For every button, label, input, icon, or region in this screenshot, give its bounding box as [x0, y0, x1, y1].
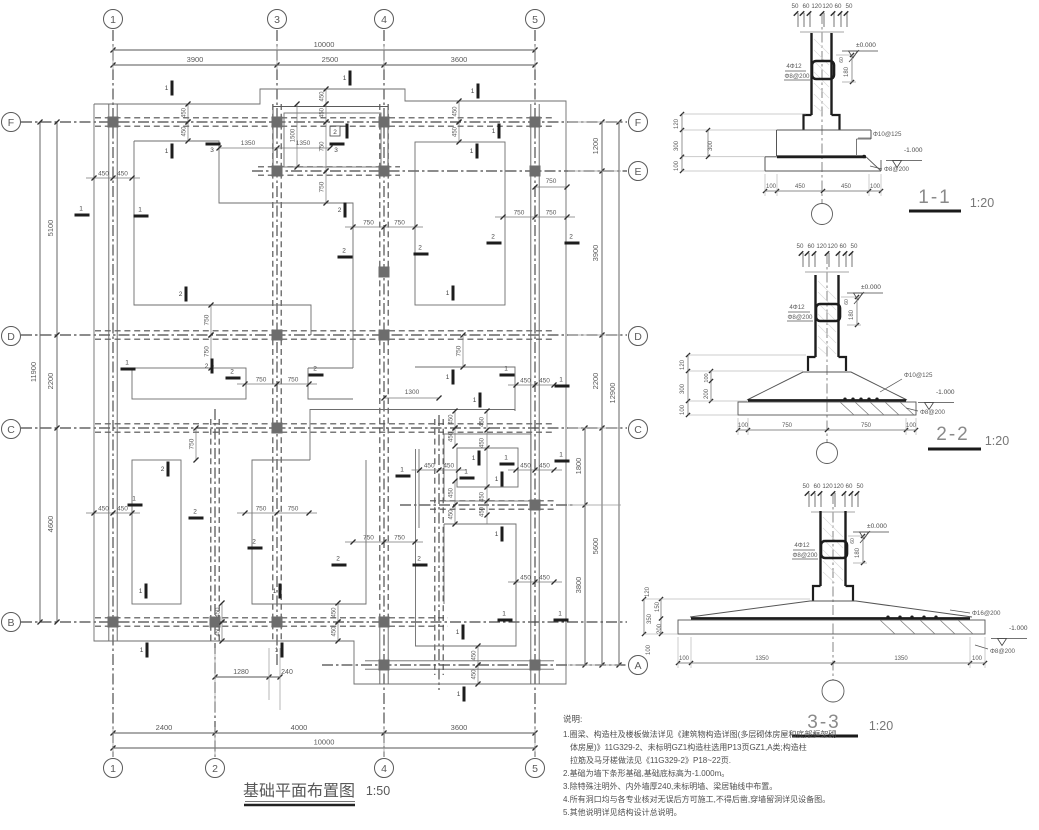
axis line mid-landing (horizontal, unlabeled): [400, 504, 575, 506]
section 1-1 mat slab: [765, 156, 777, 158]
svg-text:50: 50: [851, 243, 858, 250]
svg-text:2: 2: [336, 556, 340, 563]
footing outline room F-D/1-3 top edge: [134, 141, 353, 335]
svg-text:1.圈梁、构造柱及楼板做法详见《建筑物构造详图(多层砌体房屋: 1.圈梁、构造柱及楼板做法详见《建筑物构造详图(多层砌体房屋和底部框架砌: [563, 729, 836, 739]
axis bubble 3 top: [268, 10, 287, 29]
svg-text:1: 1: [502, 611, 506, 618]
wall on axis 5: [530, 104, 532, 684]
svg-text:1-1: 1-1: [918, 187, 951, 208]
svg-text:100: 100: [680, 404, 686, 415]
section 1-1 bottom rebar thick line: [777, 155, 866, 158]
section cut mark 1-1 at (403,476): [396, 475, 411, 478]
wall on axis 4: [379, 104, 381, 622]
section cut mark 1-1 at (480,400): [479, 393, 482, 408]
column F3: [272, 117, 283, 128]
svg-text:450: 450: [480, 506, 486, 517]
svg-text:120: 120: [645, 586, 651, 597]
svg-text:450: 450: [182, 126, 188, 137]
svg-text:4: 4: [381, 14, 387, 26]
dim 750 C to footing edge (x196): [195, 428, 197, 460]
svg-text:2: 2: [333, 129, 337, 136]
svg-text:3900: 3900: [591, 245, 600, 262]
axis bubble E right: [629, 162, 648, 181]
svg-text:200: 200: [657, 623, 663, 634]
svg-text:1: 1: [559, 377, 563, 384]
dim 450 F to porch footing: [325, 89, 327, 104]
svg-text:50: 50: [803, 483, 810, 490]
section 2-2 mat diagonal hatch: [840, 402, 854, 415]
footing outline stair room outer: [444, 434, 531, 501]
section 3-3 mat diagonal hatch: [880, 620, 895, 634]
svg-text:450: 450: [216, 607, 222, 618]
section cut mark 3-3 at (337,144): [330, 143, 345, 146]
dim extension lines bottom: [112, 727, 114, 757]
section cut mark 1-1 at (350,78): [349, 71, 352, 86]
section cut mark 1-1 at (507,375): [500, 374, 515, 377]
svg-text:100: 100: [870, 184, 881, 190]
svg-text:2: 2: [313, 366, 317, 373]
svg-text:Φ10@125: Φ10@125: [873, 131, 902, 138]
svg-text:1:20: 1:20: [970, 196, 994, 210]
svg-text:2: 2: [193, 509, 197, 516]
svg-text:450: 450: [520, 575, 531, 582]
svg-text:450: 450: [480, 491, 486, 502]
svg-text:11900: 11900: [29, 362, 38, 382]
svg-text:1: 1: [343, 75, 347, 82]
section cut mark 1-1 at (499,131): [498, 124, 501, 139]
svg-text:1: 1: [273, 588, 277, 595]
svg-text:4Φ12: 4Φ12: [794, 542, 810, 549]
section 3-3 bottom dim 100/1350/1350/100: [678, 662, 985, 664]
svg-text:450: 450: [216, 626, 222, 637]
footing outline room 4-5/F-D: [415, 142, 505, 305]
axis bubble 5 bottom: [526, 759, 545, 778]
svg-text:450: 450: [98, 506, 109, 513]
dim 750/750 across wall 5 at E-D: [495, 216, 575, 218]
column B1: [108, 617, 119, 628]
dim 450 stair room bottom: [454, 481, 456, 505]
axis line E (horizontal grid): [252, 170, 627, 172]
axis line 2 (vertical grid): [214, 409, 216, 757]
svg-text:2: 2: [205, 363, 209, 370]
dim 450/450 across stair wall: [412, 469, 467, 471]
footing outline room 4-5/D-C: [415, 367, 515, 411]
svg-text:C: C: [634, 424, 642, 436]
column E4: [379, 166, 390, 177]
footing outline room 5-6/mid-A: [416, 524, 517, 646]
wall on axis A: [365, 660, 554, 662]
svg-text:300: 300: [680, 383, 686, 394]
svg-text:1: 1: [464, 469, 468, 476]
wall on axis E (between axes 3 and 4): [258, 166, 400, 168]
section 3-3 centerline: [832, 494, 834, 680]
svg-text:±0.000: ±0.000: [867, 523, 887, 530]
svg-text:3900: 3900: [187, 55, 204, 64]
svg-text:5: 5: [532, 763, 538, 775]
section cut mark 2-2 at (494,243): [487, 242, 502, 245]
section 1-1 stirrup cage 4phi12: [812, 61, 834, 79]
svg-text:120: 120: [827, 243, 838, 250]
svg-text:5.其他说明详见结构设计总说明。: 5.其他说明详见结构设计总说明。: [563, 807, 682, 817]
axis bubble 5 top: [526, 10, 545, 29]
svg-text:100: 100: [766, 184, 777, 190]
svg-text:100: 100: [738, 423, 749, 429]
section cut mark 1-1 at (477,151): [476, 144, 479, 159]
section cut mark 1-1 at (463,632): [462, 625, 465, 640]
column D4: [379, 330, 390, 341]
svg-text:450: 450: [539, 378, 550, 385]
svg-text:1: 1: [125, 360, 129, 367]
section 3-3 shaft base step: [813, 586, 821, 601]
footing outline corridor 3-4/D-C: [308, 368, 353, 399]
column F1: [108, 117, 119, 128]
svg-text:1: 1: [110, 14, 116, 26]
wall on axis 2 (C to B): [210, 419, 212, 641]
section cut mark 1-1 at (561,620): [554, 619, 569, 622]
wall on axis 4 below B (solid): [379, 622, 381, 684]
svg-text:1300: 1300: [405, 389, 420, 396]
section 2-2 rebar section dots: [843, 398, 846, 401]
svg-text:说明:: 说明:: [563, 714, 582, 724]
svg-text:60: 60: [844, 299, 850, 305]
svg-text:1: 1: [140, 647, 144, 654]
dim chain right overall 12900: [618, 122, 620, 665]
svg-text:180: 180: [844, 66, 850, 77]
section 2-2 stirrup cage 4phi12: [816, 304, 840, 321]
svg-text:1280: 1280: [233, 669, 249, 676]
section 2-2 level mark -1.000: [918, 402, 954, 404]
section 3-3 column shaft: [819, 511, 821, 586]
svg-text:60: 60: [850, 538, 856, 544]
svg-text:±0.000: ±0.000: [861, 284, 881, 291]
footing outline room 1-2/C-B: [132, 460, 181, 604]
svg-text:100: 100: [646, 644, 652, 655]
svg-text:4Φ12: 4Φ12: [789, 304, 805, 311]
dim bottom 1280/240: [215, 676, 280, 678]
dim extension lines right side: [568, 121, 621, 123]
section cut mark 1-1 at (502,479): [501, 472, 504, 487]
svg-text:B: B: [7, 617, 14, 629]
section 2-2 column shaft: [814, 275, 816, 357]
dim 750 wall5 to outer edge: [535, 186, 567, 188]
svg-text:180: 180: [849, 309, 855, 320]
wall on axis D: [95, 330, 554, 332]
svg-text:5600: 5600: [591, 538, 600, 555]
section cut mark 2-2 at (255,548): [248, 547, 263, 550]
column F5: [530, 117, 541, 128]
section cut mark 2-2 at (345,210): [344, 203, 347, 218]
section 3-3 footing sloped top: [690, 601, 972, 617]
section cut mark 2-2 at (345,257): [338, 256, 353, 259]
section cut mark 1-1 at (146,591): [145, 584, 148, 599]
axis bubble D left: [2, 327, 21, 346]
dim 450/450 across wall 5 at stair: [508, 469, 562, 471]
dim 750/750 across wall 4 at E-D: [345, 226, 423, 228]
dim chain top segments 3900/2500/3600: [113, 64, 535, 66]
wall4 west footing edge below D: [352, 335, 354, 368]
section cut mark 1-1 at (464,694): [463, 687, 466, 702]
section 1-1 shaft base step: [804, 115, 812, 130]
dim 750 footing edge to D (x211 upper): [210, 305, 212, 335]
svg-text:450: 450: [520, 378, 531, 385]
dim 750 E to footing edge: [325, 171, 327, 203]
svg-text:1: 1: [470, 148, 474, 155]
section 1-1 left dim 300 second chain: [707, 130, 709, 157]
dim 450 stair room top: [454, 411, 456, 428]
svg-text:2: 2: [212, 763, 218, 775]
svg-text:450: 450: [841, 184, 852, 190]
axis bubble B left: [2, 613, 21, 632]
svg-text:1: 1: [400, 467, 404, 474]
svg-text:体房屋)》11G329-2、未标明GZ1构造柱选用P13页G: 体房屋)》11G329-2、未标明GZ1构造柱选用P13页GZ1,A类;构造柱: [570, 742, 807, 752]
section cut mark 1-1 at (562,386): [555, 385, 570, 388]
svg-text:750: 750: [861, 423, 872, 429]
section 2-2 footing sloped top: [747, 372, 907, 400]
svg-text:450: 450: [332, 626, 338, 637]
column A5: [530, 660, 541, 671]
section cut mark 1-1 at (147,650): [146, 643, 149, 658]
column A4: [379, 660, 390, 671]
svg-text:4Φ12: 4Φ12: [786, 63, 802, 70]
axis bubble 4 bottom: [375, 759, 394, 778]
svg-text:750: 750: [320, 141, 326, 152]
dim chain left overall 11900: [39, 122, 41, 622]
svg-text:450: 450: [117, 506, 128, 513]
section cut mark 1-1 at (172,151): [171, 144, 174, 159]
svg-text:750: 750: [456, 345, 463, 356]
svg-text:1: 1: [558, 611, 562, 618]
section cut mark 3-3 at (213,144): [206, 143, 221, 146]
section cut mark 2 boxed near porch: [330, 126, 340, 136]
svg-text:C: C: [7, 424, 15, 436]
svg-text:2-2: 2-2: [936, 424, 969, 445]
svg-text:2: 2: [417, 556, 421, 563]
svg-text:2: 2: [569, 234, 573, 241]
svg-text:60: 60: [803, 3, 810, 10]
svg-text:1: 1: [495, 531, 499, 538]
svg-text:60: 60: [839, 57, 845, 63]
svg-text:750: 750: [256, 506, 267, 513]
section cut mark 1-1 at (453,293): [452, 286, 455, 301]
axis line 3 (vertical grid): [276, 30, 278, 668]
svg-text:1350: 1350: [241, 140, 256, 147]
axis line 1 (vertical grid): [112, 30, 114, 757]
svg-text:1: 1: [132, 496, 136, 503]
section 1-1 level mark +-0.000: [842, 50, 878, 52]
wall on axis 1: [108, 104, 110, 641]
dim 1350 porch west: [219, 147, 277, 149]
section 3-3 stirrup cage 4phi12: [821, 541, 847, 558]
svg-text:1: 1: [446, 374, 450, 381]
wall on axis F: [95, 117, 554, 119]
svg-text:60: 60: [840, 243, 847, 250]
svg-text:1: 1: [456, 629, 460, 636]
svg-text:450: 450: [480, 416, 486, 427]
dim 450/450 across wall 1 at C-B: [86, 512, 140, 514]
dim 750/750 across wall 4 at C-B: [345, 541, 423, 543]
section 1-1 footing upper block: [777, 129, 872, 131]
wall on mid-landing axis: [430, 500, 554, 502]
svg-text:Φ8@200: Φ8@200: [788, 314, 814, 321]
section cut mark 1-1 at (141,216): [134, 215, 149, 218]
section 2-2 axis circle: [817, 443, 838, 464]
svg-text:4600: 4600: [46, 516, 55, 533]
svg-text:1: 1: [492, 128, 496, 135]
section cut mark 1-1 at (282,650): [281, 643, 284, 658]
svg-text:2500: 2500: [322, 55, 339, 64]
svg-text:2: 2: [338, 207, 342, 214]
section cut mark 1-1 at (172,88): [171, 81, 174, 96]
svg-text:60: 60: [808, 243, 815, 250]
axis line B (horizontal grid): [21, 621, 627, 623]
section cut mark 2-2 at (420,565): [413, 564, 428, 567]
svg-text:1: 1: [457, 691, 461, 698]
svg-text:100: 100: [674, 160, 680, 171]
svg-text:50: 50: [857, 483, 864, 490]
dim chain right segments 1200/3900/2200/5600: [601, 122, 603, 665]
section 1-1 left dim chain 120/300/100: [681, 114, 683, 171]
svg-text:120: 120: [822, 3, 833, 10]
column E3: [272, 166, 283, 177]
svg-text:50: 50: [797, 243, 804, 250]
dim 450 B to footing (mid room): [337, 603, 339, 622]
section 2-2 dim 180: [856, 297, 858, 325]
svg-text:750: 750: [546, 210, 557, 217]
svg-text:450: 450: [453, 126, 459, 137]
svg-text:Φ8@200: Φ8@200: [884, 166, 910, 173]
section cut mark 2-2 at (572,243): [565, 242, 580, 245]
section 1-1 dim 180: [851, 55, 853, 82]
svg-text:450: 450: [117, 171, 128, 178]
svg-text:2: 2: [491, 234, 495, 241]
svg-text:10000: 10000: [314, 40, 335, 49]
section cut mark 1-1 at (479,458): [478, 451, 481, 466]
svg-text:-1.000: -1.000: [1009, 625, 1028, 632]
axis line stair wall (vertical, unlabeled): [438, 415, 440, 690]
svg-text:1350: 1350: [296, 140, 311, 147]
svg-text:300: 300: [674, 140, 680, 151]
svg-text:1800: 1800: [574, 458, 583, 475]
section 1-1 column shaft: [810, 33, 812, 115]
section 1-1 axis circle: [812, 204, 833, 225]
svg-text:100: 100: [704, 373, 710, 382]
axis bubble C right: [629, 420, 648, 439]
svg-text:基础平面布置图: 基础平面布置图: [243, 782, 355, 800]
svg-text:450: 450: [320, 91, 326, 102]
svg-text:450: 450: [449, 414, 455, 425]
svg-text:3: 3: [334, 147, 338, 154]
dim 1300 axis4 to stair wall: [384, 397, 439, 399]
section cut mark 1-1 at (280,591): [279, 584, 282, 599]
wall on axis B: [95, 617, 448, 619]
svg-text:1: 1: [446, 290, 450, 297]
section 3-3 level mark +-0.000: [853, 531, 889, 533]
axis line 5 (vertical grid): [534, 30, 536, 757]
section cut mark 1-1 at (562,461): [555, 460, 570, 463]
svg-text:Φ10@125: Φ10@125: [904, 372, 933, 379]
svg-text:150: 150: [655, 601, 661, 612]
svg-text:450: 450: [520, 463, 531, 470]
svg-text:120: 120: [822, 483, 833, 490]
section 2-2 mat slab: [738, 402, 916, 415]
section 3-3 left dim chains 150/200 and 350/100: [660, 599, 662, 634]
svg-text:200: 200: [704, 388, 710, 399]
svg-text:750: 750: [363, 535, 374, 542]
svg-text:1200: 1200: [591, 138, 600, 155]
footing outline west corridor edge: [415, 449, 417, 555]
svg-text:1:20: 1:20: [985, 434, 1009, 448]
stair west wall: [434, 419, 436, 675]
svg-text:2: 2: [230, 369, 234, 376]
svg-text:Φ16@200: Φ16@200: [972, 610, 1001, 617]
dim 750 porch to E: [325, 122, 327, 171]
svg-text:1500: 1500: [291, 128, 297, 142]
dim chain right inner 1800/3800: [584, 428, 586, 665]
svg-text:4000: 4000: [291, 723, 308, 732]
section cut mark 2-2 at (233,378): [226, 377, 241, 380]
svg-text:120: 120: [674, 118, 680, 129]
svg-text:1: 1: [504, 455, 508, 462]
svg-text:3600: 3600: [451, 723, 468, 732]
footing outline north edge of wall C (right): [310, 410, 515, 461]
svg-text:450: 450: [480, 437, 486, 448]
footing outline stair room inner: [457, 448, 518, 487]
svg-text:50: 50: [792, 3, 799, 10]
svg-text:450: 450: [449, 487, 455, 498]
svg-text:750: 750: [394, 535, 405, 542]
axis line D (horizontal grid): [21, 334, 627, 336]
svg-text:1: 1: [138, 207, 142, 214]
svg-text:3600: 3600: [451, 55, 468, 64]
section cut mark 2-2 at (196,518): [189, 517, 204, 520]
svg-text:750: 750: [363, 220, 374, 227]
axis bubble F left: [2, 113, 21, 132]
section 2-2 centerline: [826, 254, 828, 442]
footing outline room 1-3/D-C: [132, 368, 246, 399]
axis bubble 4 top: [375, 10, 394, 29]
svg-text:1350: 1350: [894, 656, 908, 662]
section 3-3 dim 180: [862, 536, 864, 563]
wall on axis 3: [272, 104, 274, 641]
dim 450/450 across wall 5 at D-C: [508, 384, 562, 386]
svg-text:750: 750: [394, 220, 405, 227]
dim 750/750 across wall 3 at C-B: [237, 512, 317, 514]
svg-text:120: 120: [816, 243, 827, 250]
svg-text:350: 350: [647, 613, 653, 624]
column D3: [272, 330, 283, 341]
svg-text:2200: 2200: [46, 373, 55, 390]
dim 750 D to footing edge (x211 lower): [210, 335, 212, 368]
dim 1500 porch vertical: [296, 104, 298, 167]
section 2-2 left dim chains: [687, 355, 689, 415]
svg-text:750: 750: [204, 346, 211, 357]
svg-text:1: 1: [495, 476, 499, 483]
svg-text:1: 1: [275, 647, 279, 654]
svg-text:450: 450: [98, 171, 109, 178]
svg-text:100: 100: [906, 423, 917, 429]
dim 450/450 across wall 5 at B: [508, 581, 562, 583]
svg-text:1: 1: [504, 366, 508, 373]
column mid-5: [530, 500, 541, 511]
svg-text:1: 1: [165, 148, 169, 155]
svg-text:3.除特殊注明外、内外墙厚240,未标明墙、梁居轴线中布置。: 3.除特殊注明外、内外墙厚240,未标明墙、梁居轴线中布置。: [563, 781, 777, 791]
svg-text:2.基础为墙下条形基础,基础底标高为-1.000m。: 2.基础为墙下条形基础,基础底标高为-1.000m。: [563, 768, 729, 778]
column E5: [530, 166, 541, 177]
svg-text:750: 750: [514, 210, 525, 217]
svg-text:1: 1: [110, 763, 116, 775]
section cut mark 1-1 at (82,215): [75, 214, 90, 217]
svg-text:E: E: [634, 166, 641, 178]
